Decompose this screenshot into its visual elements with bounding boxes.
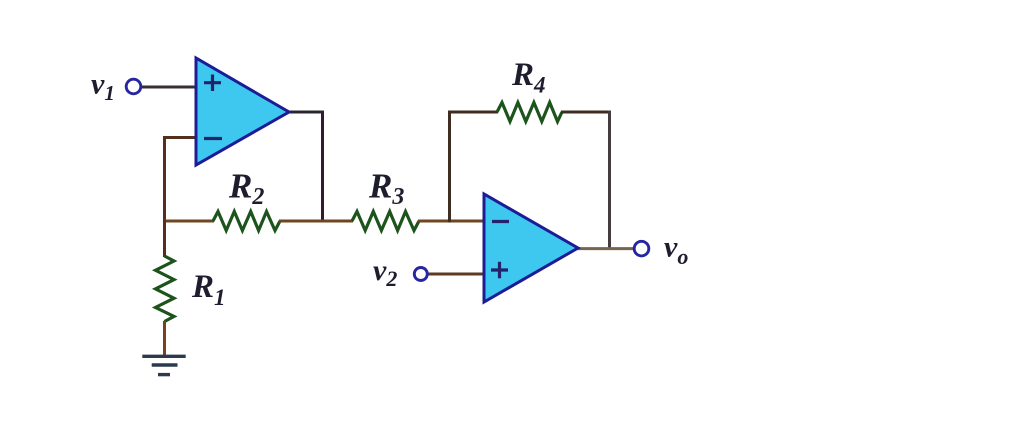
wire v2 to U2 + input xyxy=(428,273,486,276)
op-amp U1 xyxy=(196,58,289,165)
wire feedback left vertical node C up xyxy=(448,111,451,223)
op-amp U1 minus sign xyxy=(204,137,222,140)
op-amp U2 plus sign xyxy=(491,262,508,279)
terminal vo xyxy=(634,241,649,256)
op-amp U1 plus sign xyxy=(204,75,221,92)
wire U1 output vertical down to node B xyxy=(321,112,324,223)
terminal v1 xyxy=(126,79,141,94)
ground xyxy=(142,356,185,374)
wire R2 to R3 through node B xyxy=(279,220,353,223)
wire R3 to U2 - input through node C xyxy=(418,220,486,223)
svg-text:R2: R2 xyxy=(228,167,264,211)
svg-text:v2: v2 xyxy=(373,254,397,291)
wire U1 - input horizontal xyxy=(163,136,197,139)
svg-text:vo: vo xyxy=(664,231,688,270)
resistor R3 xyxy=(352,212,419,231)
op-amp U2 xyxy=(484,194,578,302)
wire node A to R2 xyxy=(163,220,214,223)
wire v1 to op-amp U1 + input xyxy=(142,86,197,89)
svg-text:R3: R3 xyxy=(368,167,404,211)
wire U1 - input vertical down to node A xyxy=(163,136,166,223)
op-amp U2 minus sign xyxy=(492,220,509,223)
resistor R4 xyxy=(497,103,562,122)
wire R1 to ground xyxy=(163,321,166,356)
wire U1 output horizontal xyxy=(286,111,324,114)
svg-text:R4: R4 xyxy=(511,57,546,98)
wire R4 to feedback right vertical xyxy=(561,111,611,114)
terminal v2 xyxy=(414,268,427,281)
wire U2 output to vo terminal xyxy=(575,247,633,250)
wire feedback top left to R4 xyxy=(448,111,498,114)
resistor R2 xyxy=(213,212,280,231)
wire feedback right vertical down to output node D xyxy=(608,111,611,251)
wire node A down to R1 xyxy=(163,220,166,257)
svg-text:v1: v1 xyxy=(91,68,115,106)
svg-text:R1: R1 xyxy=(191,269,226,310)
resistor R1 xyxy=(156,256,175,322)
